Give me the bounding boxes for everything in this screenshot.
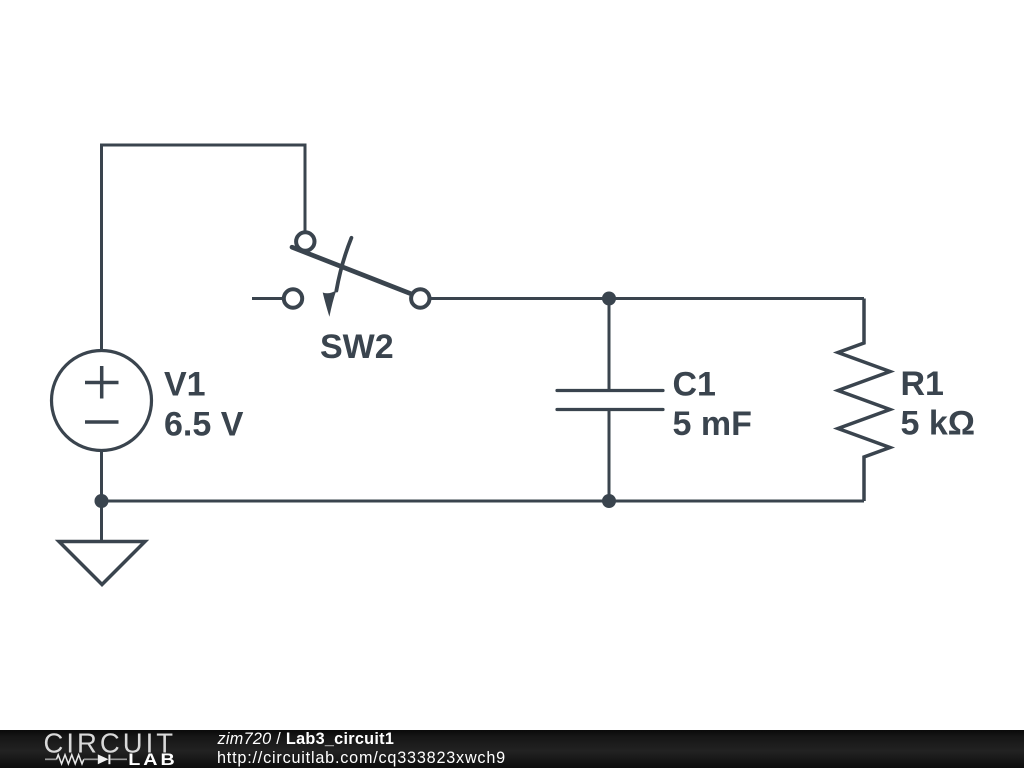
switch SW2 top terminal	[296, 232, 314, 250]
ground	[59, 542, 145, 585]
footer bar	[0, 730, 1024, 768]
wire C1 bottom plate to bottom rail	[608, 410, 611, 501]
svg-text:6.5 V: 6.5 V	[164, 406, 244, 444]
svg-text:5 mF: 5 mF	[673, 405, 752, 443]
switch SW2 left terminal	[284, 289, 302, 307]
wire V1 bottom to ground node	[100, 450, 103, 501]
V1 plus sign	[85, 366, 119, 399]
switch SW2 arrow head	[323, 290, 337, 317]
svg-text:zim720 / Lab3_circuit1: zim720 / Lab3_circuit1	[217, 730, 395, 748]
switch SW2 arm	[292, 247, 412, 294]
switch SW2 right terminal	[411, 289, 429, 307]
node junction dot C1 bottom	[602, 494, 616, 508]
svg-text:V1: V1	[164, 366, 206, 404]
switch SW2 left stub wire	[252, 297, 284, 300]
resistor R1	[838, 299, 890, 502]
wire node to ground	[100, 501, 103, 542]
svg-text:SW2: SW2	[320, 328, 394, 366]
wire switch to resistor top rail	[430, 297, 864, 300]
switch SW2 action arrow arc	[336, 238, 351, 291]
svg-text:R1: R1	[901, 365, 944, 403]
svg-text:C1: C1	[673, 365, 716, 403]
voltage source V1	[52, 351, 152, 451]
logo diode triangle	[98, 754, 109, 764]
wire top-left loop V1 to switch	[102, 145, 306, 352]
wire node A to C1 top plate	[608, 298, 611, 390]
node junction dot V1 bottom	[95, 494, 109, 508]
svg-text:LAB: LAB	[128, 749, 178, 768]
wire bottom rail	[102, 500, 865, 503]
logo circuit line with resistor and diode	[45, 755, 127, 765]
node junction dot C1 top	[602, 292, 616, 306]
capacitor C1 plates	[557, 391, 663, 410]
V1 minus sign	[85, 420, 119, 424]
svg-text:http://circuitlab.com/cq333823: http://circuitlab.com/cq333823xwch9	[217, 749, 506, 767]
svg-text:5 kΩ: 5 kΩ	[901, 405, 976, 443]
labels	[164, 328, 975, 444]
